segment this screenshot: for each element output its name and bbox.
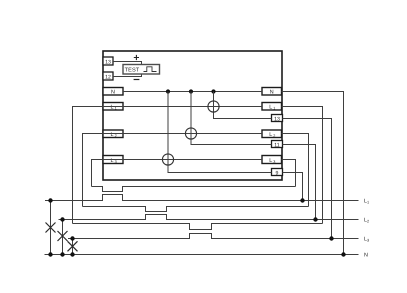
- wire terminal 9 to L1 bus: [283, 173, 303, 201]
- label bus L2: [364, 218, 369, 224]
- wire N drop to terminal 9: [168, 92, 272, 173]
- bus L1: [45, 195, 359, 201]
- junction N bus left 1: [48, 252, 52, 256]
- svg-text:9: 9: [276, 170, 279, 176]
- minus polarity mark: [134, 79, 140, 81]
- svg-text:L: L: [269, 105, 272, 111]
- device outline U1: [103, 51, 282, 180]
- fuse drop L3 to N: [72, 239, 74, 255]
- junction N bus left 2: [60, 252, 64, 256]
- fuse mark X1: [46, 223, 56, 233]
- svg-text:N: N: [270, 90, 274, 96]
- terminal L3 left: [103, 156, 123, 164]
- wire terminal13 to TEST top: [113, 62, 142, 65]
- wire terminal12 to TEST bottom: [113, 74, 142, 77]
- svg-text:13: 13: [105, 59, 111, 65]
- svg-text:1: 1: [367, 201, 369, 205]
- terminal 12 left: [103, 72, 113, 80]
- wire phase L1 through device: [103, 106, 262, 108]
- junction L2 bus left: [60, 217, 64, 221]
- svg-text:2: 2: [115, 134, 117, 138]
- svg-text:3: 3: [115, 160, 117, 164]
- terminal 11 right: [272, 141, 283, 149]
- pulse symbol: [144, 67, 157, 72]
- terminal L2 left: [103, 130, 123, 138]
- measuring element E3: [162, 154, 173, 165]
- wire L3 left feed: [92, 160, 104, 187]
- svg-text:13: 13: [274, 116, 280, 122]
- label bus L1: [364, 199, 369, 205]
- wire L1 left feed: [73, 107, 104, 224]
- terminal N right: [262, 88, 282, 96]
- svg-text:1: 1: [115, 107, 117, 111]
- junction L3 bus right: [329, 236, 333, 240]
- svg-text:12: 12: [105, 74, 111, 80]
- junction L1 bus right: [300, 198, 304, 202]
- wire N drop to terminal 11: [191, 92, 272, 145]
- terminal N left: [103, 88, 123, 96]
- terminal L1 right: [262, 103, 282, 111]
- label bus L3: [364, 237, 369, 243]
- node on N bus 2: [189, 89, 193, 93]
- wire L1 return under device: [73, 224, 323, 230]
- junction N bus right: [341, 252, 345, 256]
- wire terminal 13 to L3 bus: [283, 119, 332, 239]
- wire L3 right riser: [282, 160, 296, 187]
- svg-text:L: L: [111, 158, 114, 164]
- svg-text:L: L: [269, 132, 272, 138]
- TEST button S1: [123, 65, 160, 75]
- fuse drop L2 to N: [62, 220, 64, 255]
- svg-text:2: 2: [367, 220, 369, 224]
- wire phase L3 through device: [103, 159, 262, 161]
- svg-text:L: L: [269, 158, 272, 164]
- wire N right to N bus: [282, 92, 344, 255]
- terminal 13 left: [103, 57, 113, 65]
- wire L2 right riser: [282, 134, 309, 207]
- plus polarity mark: [134, 55, 139, 60]
- terminal L2 right: [262, 130, 282, 138]
- svg-text:TEST: TEST: [125, 68, 140, 74]
- wire phase L2 through device: [103, 133, 262, 135]
- svg-text:N: N: [364, 253, 368, 259]
- measuring element E1: [208, 101, 219, 112]
- terminal L3 right: [262, 156, 282, 164]
- svg-text:1: 1: [273, 107, 275, 111]
- junction L1 bus left: [48, 198, 52, 202]
- wire terminal 11 to L2 bus: [283, 145, 316, 220]
- fuse drop L1 to N: [50, 201, 52, 255]
- wire internal N bus: [123, 91, 262, 93]
- wire L2 return under device: [83, 207, 309, 212]
- junction L2 bus right: [313, 217, 317, 221]
- terminal 9 right: [272, 169, 283, 177]
- wire L1 right riser: [282, 107, 323, 224]
- svg-text:N: N: [111, 90, 115, 96]
- node on N bus 1: [166, 89, 170, 93]
- fuse mark X2: [58, 231, 68, 241]
- svg-text:11: 11: [274, 142, 279, 148]
- terminal L1 left: [103, 103, 123, 111]
- wire N drop to terminal 13: [214, 92, 272, 119]
- wire L2 left feed: [83, 134, 104, 207]
- wire L3 return under device: [92, 187, 296, 192]
- junction N bus left 3: [70, 252, 74, 256]
- bus N: [45, 254, 359, 256]
- svg-text:3: 3: [367, 239, 369, 243]
- bus L3: [68, 234, 359, 239]
- terminal 13 right: [272, 115, 283, 123]
- junction L3 bus left: [70, 236, 74, 240]
- fuse mark X3: [68, 241, 78, 251]
- bus L2: [59, 215, 359, 220]
- measuring element E2: [185, 128, 196, 139]
- svg-text:L: L: [111, 105, 114, 111]
- node on N bus 3: [211, 89, 215, 93]
- svg-text:3: 3: [273, 160, 275, 164]
- svg-text:2: 2: [273, 134, 275, 138]
